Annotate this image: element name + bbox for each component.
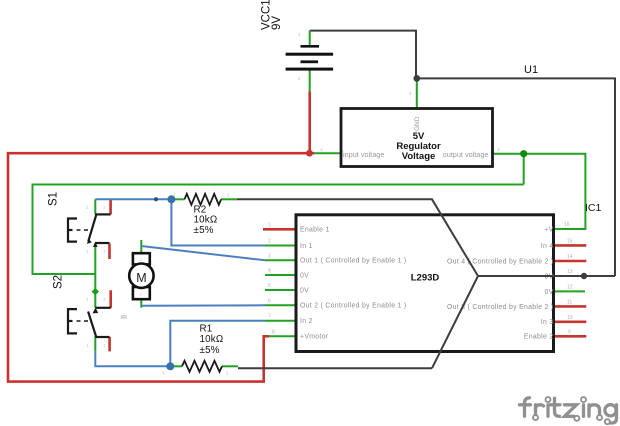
svg-text:2: 2: [268, 239, 271, 245]
svg-text:Out 2 ( Controlled by Enable 1: Out 2 ( Controlled by Enable 1 ): [300, 303, 407, 310]
svg-text:0V: 0V: [544, 289, 553, 296]
svg-text:1: 1: [268, 222, 271, 228]
svg-text:14: 14: [567, 254, 573, 260]
svg-text:4: 4: [268, 268, 271, 274]
svg-text:In 1: In 1: [300, 243, 313, 250]
svg-text:L293D: L293D: [411, 273, 440, 284]
svg-text:S2: S2: [53, 275, 65, 289]
svg-text:output voltage: output voltage: [443, 150, 489, 159]
svg-text:10kΩ: 10kΩ: [194, 215, 218, 226]
svg-text:IC1: IC1: [585, 202, 602, 214]
svg-text:S1: S1: [47, 192, 59, 206]
svg-text:±5%: ±5%: [194, 225, 214, 236]
svg-text:12: 12: [567, 284, 573, 290]
svg-text:Enable 2: Enable 2: [524, 334, 554, 341]
svg-text:I/R: I/R: [121, 315, 128, 321]
svg-text:16: 16: [564, 222, 570, 228]
svg-text:±5%: ±5%: [200, 345, 220, 356]
svg-text:11: 11: [567, 299, 572, 305]
svg-text:+V: +V: [544, 226, 553, 233]
svg-text:8: 8: [272, 329, 275, 335]
svg-text:In 2: In 2: [300, 318, 313, 325]
svg-text:0V: 0V: [300, 272, 309, 279]
svg-text:Enable 1: Enable 1: [300, 227, 330, 234]
svg-text:6: 6: [268, 298, 271, 304]
svg-text:GND: GND: [414, 116, 421, 131]
svg-text:3: 3: [268, 253, 271, 259]
svg-text:Out 4 ( Controlled by Enable 2: Out 4 ( Controlled by Enable 2 ): [447, 258, 554, 265]
svg-text:+Vmotor: +Vmotor: [300, 334, 329, 341]
svg-text:9V: 9V: [271, 16, 283, 30]
svg-text:15: 15: [567, 238, 573, 244]
svg-text:R1: R1: [200, 324, 213, 335]
svg-text:10: 10: [567, 315, 573, 321]
svg-text:5: 5: [268, 283, 271, 289]
svg-text:13: 13: [567, 269, 573, 275]
svg-text:In 4: In 4: [541, 243, 554, 250]
svg-text:9: 9: [568, 329, 571, 335]
svg-text:U1: U1: [524, 64, 538, 76]
svg-text:M: M: [136, 271, 146, 285]
svg-text:7: 7: [268, 314, 271, 320]
svg-text:10kΩ: 10kΩ: [200, 334, 224, 345]
svg-text:Voltage: Voltage: [402, 151, 436, 162]
svg-text:0V: 0V: [300, 287, 309, 294]
svg-text:In 3: In 3: [541, 319, 554, 326]
svg-text:input voltage: input voltage: [343, 150, 384, 159]
svg-text:Out 1 ( Controlled by Enable 1: Out 1 ( Controlled by Enable 1 ): [300, 258, 407, 265]
